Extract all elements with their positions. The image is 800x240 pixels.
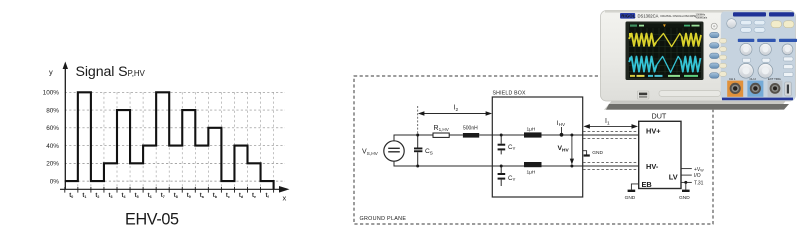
knob horizontal position bbox=[759, 43, 771, 55]
svg-text:EHV-05: EHV-05 bbox=[125, 210, 179, 228]
node dot on T.31 stub bbox=[684, 181, 687, 184]
svg-text:y: y bbox=[49, 68, 53, 77]
capacitor CY lower bbox=[498, 165, 506, 187]
svg-text:DS1302CA: DS1302CA bbox=[638, 13, 659, 18]
BNC CH1 bbox=[730, 83, 741, 94]
svg-text:400MSa/s: 400MSa/s bbox=[696, 15, 708, 19]
HV- cable solid wire bbox=[583, 165, 644, 167]
x-axis bbox=[60, 188, 282, 190]
top pill buttons bbox=[741, 20, 766, 32]
y-axis bbox=[64, 67, 66, 189]
svg-text:GND: GND bbox=[592, 150, 603, 156]
source VS,HV bbox=[384, 141, 404, 161]
front groove bbox=[659, 91, 721, 97]
cream buttons bbox=[771, 21, 794, 28]
HV+ cable shield dashed bbox=[583, 131, 639, 138]
DUT box bbox=[639, 121, 681, 188]
wire source to bottom rail bbox=[394, 161, 492, 166]
wire L to shield box bbox=[479, 134, 492, 136]
small panel buttons bbox=[743, 57, 794, 76]
sec-div knob bbox=[758, 63, 773, 78]
svg-text:DIGITAL OSCILLOSCOPE: DIGITAL OSCILLOSCOPE bbox=[661, 14, 697, 18]
svg-text:R1,HV: R1,HV bbox=[434, 125, 450, 132]
wire T.31 to GND bbox=[685, 182, 687, 189]
svg-text:CY: CY bbox=[508, 144, 515, 151]
svg-text:0%: 0% bbox=[50, 178, 60, 185]
column header bars bbox=[738, 39, 755, 42]
cyan trace CH2 dense burst left bbox=[629, 57, 657, 72]
BNC EXT bbox=[770, 83, 781, 94]
yellow trace CH1 clean middle bbox=[656, 33, 681, 46]
yellow trace CH1 dense burst left bbox=[629, 34, 656, 46]
control panel bbox=[721, 12, 796, 101]
svg-text:GROUND PLANE: GROUND PLANE bbox=[360, 216, 407, 222]
ground plane dashed box bbox=[354, 76, 713, 224]
svg-text:1µH: 1µH bbox=[527, 170, 536, 176]
chart vertical gridlines bbox=[78, 92, 274, 189]
IHV current marker bbox=[557, 120, 566, 137]
pin stub I/O bbox=[681, 174, 692, 176]
knob vertical position bbox=[740, 43, 752, 55]
inductor 1uH upper bbox=[524, 132, 542, 137]
capacitor CY upper bbox=[498, 134, 506, 155]
svg-text:EB: EB bbox=[642, 180, 652, 189]
svg-text:80%: 80% bbox=[46, 107, 59, 114]
LCD bottom status bar bbox=[629, 74, 701, 78]
svg-text:RIGOL: RIGOL bbox=[621, 13, 636, 18]
panel header bars bbox=[733, 12, 766, 16]
channel markers bbox=[629, 33, 633, 36]
svg-text:20%: 20% bbox=[46, 161, 59, 168]
wire R to L bbox=[449, 134, 463, 136]
probe comp connector bbox=[785, 82, 791, 96]
resistor R1,HV bbox=[433, 133, 449, 137]
knob trigger level bbox=[782, 44, 793, 55]
inductor 500nH bbox=[463, 133, 479, 138]
svg-text:x: x bbox=[283, 194, 287, 203]
LCD bbox=[629, 24, 701, 78]
usb port bbox=[637, 91, 649, 99]
scope body bbox=[601, 11, 796, 102]
cyan trace CH2 clean middle bbox=[657, 56, 681, 72]
VHV voltage arrow bbox=[558, 134, 575, 168]
cyan trace CH2 dense burst right bbox=[681, 57, 701, 72]
node dot bottom of CS bbox=[416, 165, 419, 168]
LCD top status bar bbox=[629, 24, 701, 28]
wire source to top rail bbox=[394, 135, 433, 141]
top-left small knob bbox=[727, 19, 737, 29]
volts-div knob bbox=[739, 63, 754, 78]
shield box bbox=[492, 97, 582, 197]
pin stub +Vw bbox=[681, 168, 692, 170]
pin stub T.31 bbox=[681, 181, 692, 183]
axis ticks bbox=[65, 187, 274, 193]
svg-text:IHV: IHV bbox=[557, 120, 566, 127]
svg-text:500nH: 500nH bbox=[463, 126, 478, 132]
svg-text:CH 1: CH 1 bbox=[729, 77, 736, 81]
x-axis t labels bbox=[69, 193, 269, 199]
power button bbox=[711, 23, 717, 29]
bottom rail inside shield box bbox=[492, 165, 582, 167]
BNC pad CH2 bbox=[747, 81, 763, 97]
menu buttons column bbox=[710, 32, 719, 78]
inductor 1uH lower bbox=[524, 162, 542, 167]
I1 measurement arrow bbox=[583, 118, 638, 129]
GND stub at shield box right bbox=[583, 150, 604, 156]
node dot top of CS bbox=[416, 134, 419, 137]
svg-text:100%: 100% bbox=[43, 90, 60, 97]
svg-text:1µH: 1µH bbox=[527, 127, 536, 133]
I2 measurement arrow bbox=[418, 105, 492, 134]
svg-text:T.31: T.31 bbox=[694, 181, 704, 187]
svg-text:60%: 60% bbox=[46, 125, 59, 132]
top rail inside shield box bbox=[492, 134, 582, 136]
EB stub wire bbox=[631, 184, 638, 190]
screen bezel bbox=[626, 22, 704, 81]
panel bottom label strip bbox=[722, 98, 793, 101]
HV+ cable solid wire bbox=[583, 134, 644, 136]
svg-text:GND: GND bbox=[625, 195, 636, 201]
svg-text:SHIELD BOX: SHIELD BOX bbox=[493, 91, 526, 97]
GND under LV bbox=[679, 191, 690, 201]
y-axis percent labels bbox=[43, 90, 60, 186]
svg-text:LV: LV bbox=[669, 173, 678, 182]
LCD grid bbox=[629, 28, 701, 74]
EHV-05 pulse waveform bbox=[65, 92, 274, 189]
svg-text:CY: CY bbox=[508, 175, 515, 182]
svg-text:I/O: I/O bbox=[694, 173, 701, 179]
left edge cream buttons bbox=[720, 39, 727, 77]
HV- cable shield dashed bbox=[583, 163, 639, 170]
BNC CH2 bbox=[750, 83, 761, 94]
svg-text:CH 2: CH 2 bbox=[750, 77, 757, 81]
BNC pad EXT bbox=[768, 81, 783, 97]
svg-text:GND: GND bbox=[679, 195, 690, 201]
scope base shadow bbox=[604, 101, 786, 110]
svg-text:EXT TRIG: EXT TRIG bbox=[768, 77, 781, 81]
GND under EB bbox=[625, 191, 636, 201]
RIGOL logo bbox=[620, 13, 635, 19]
svg-text:40%: 40% bbox=[46, 143, 59, 150]
svg-text:HV-: HV- bbox=[646, 162, 659, 171]
chart horizontal gridlines bbox=[65, 92, 285, 181]
yellow trace CH1 dense burst right bbox=[682, 34, 701, 46]
capacitor CS bbox=[414, 135, 422, 166]
svg-text:HV+: HV+ bbox=[646, 127, 661, 136]
svg-text:DUT: DUT bbox=[652, 112, 667, 121]
BNC pad CH1 bbox=[727, 81, 743, 97]
